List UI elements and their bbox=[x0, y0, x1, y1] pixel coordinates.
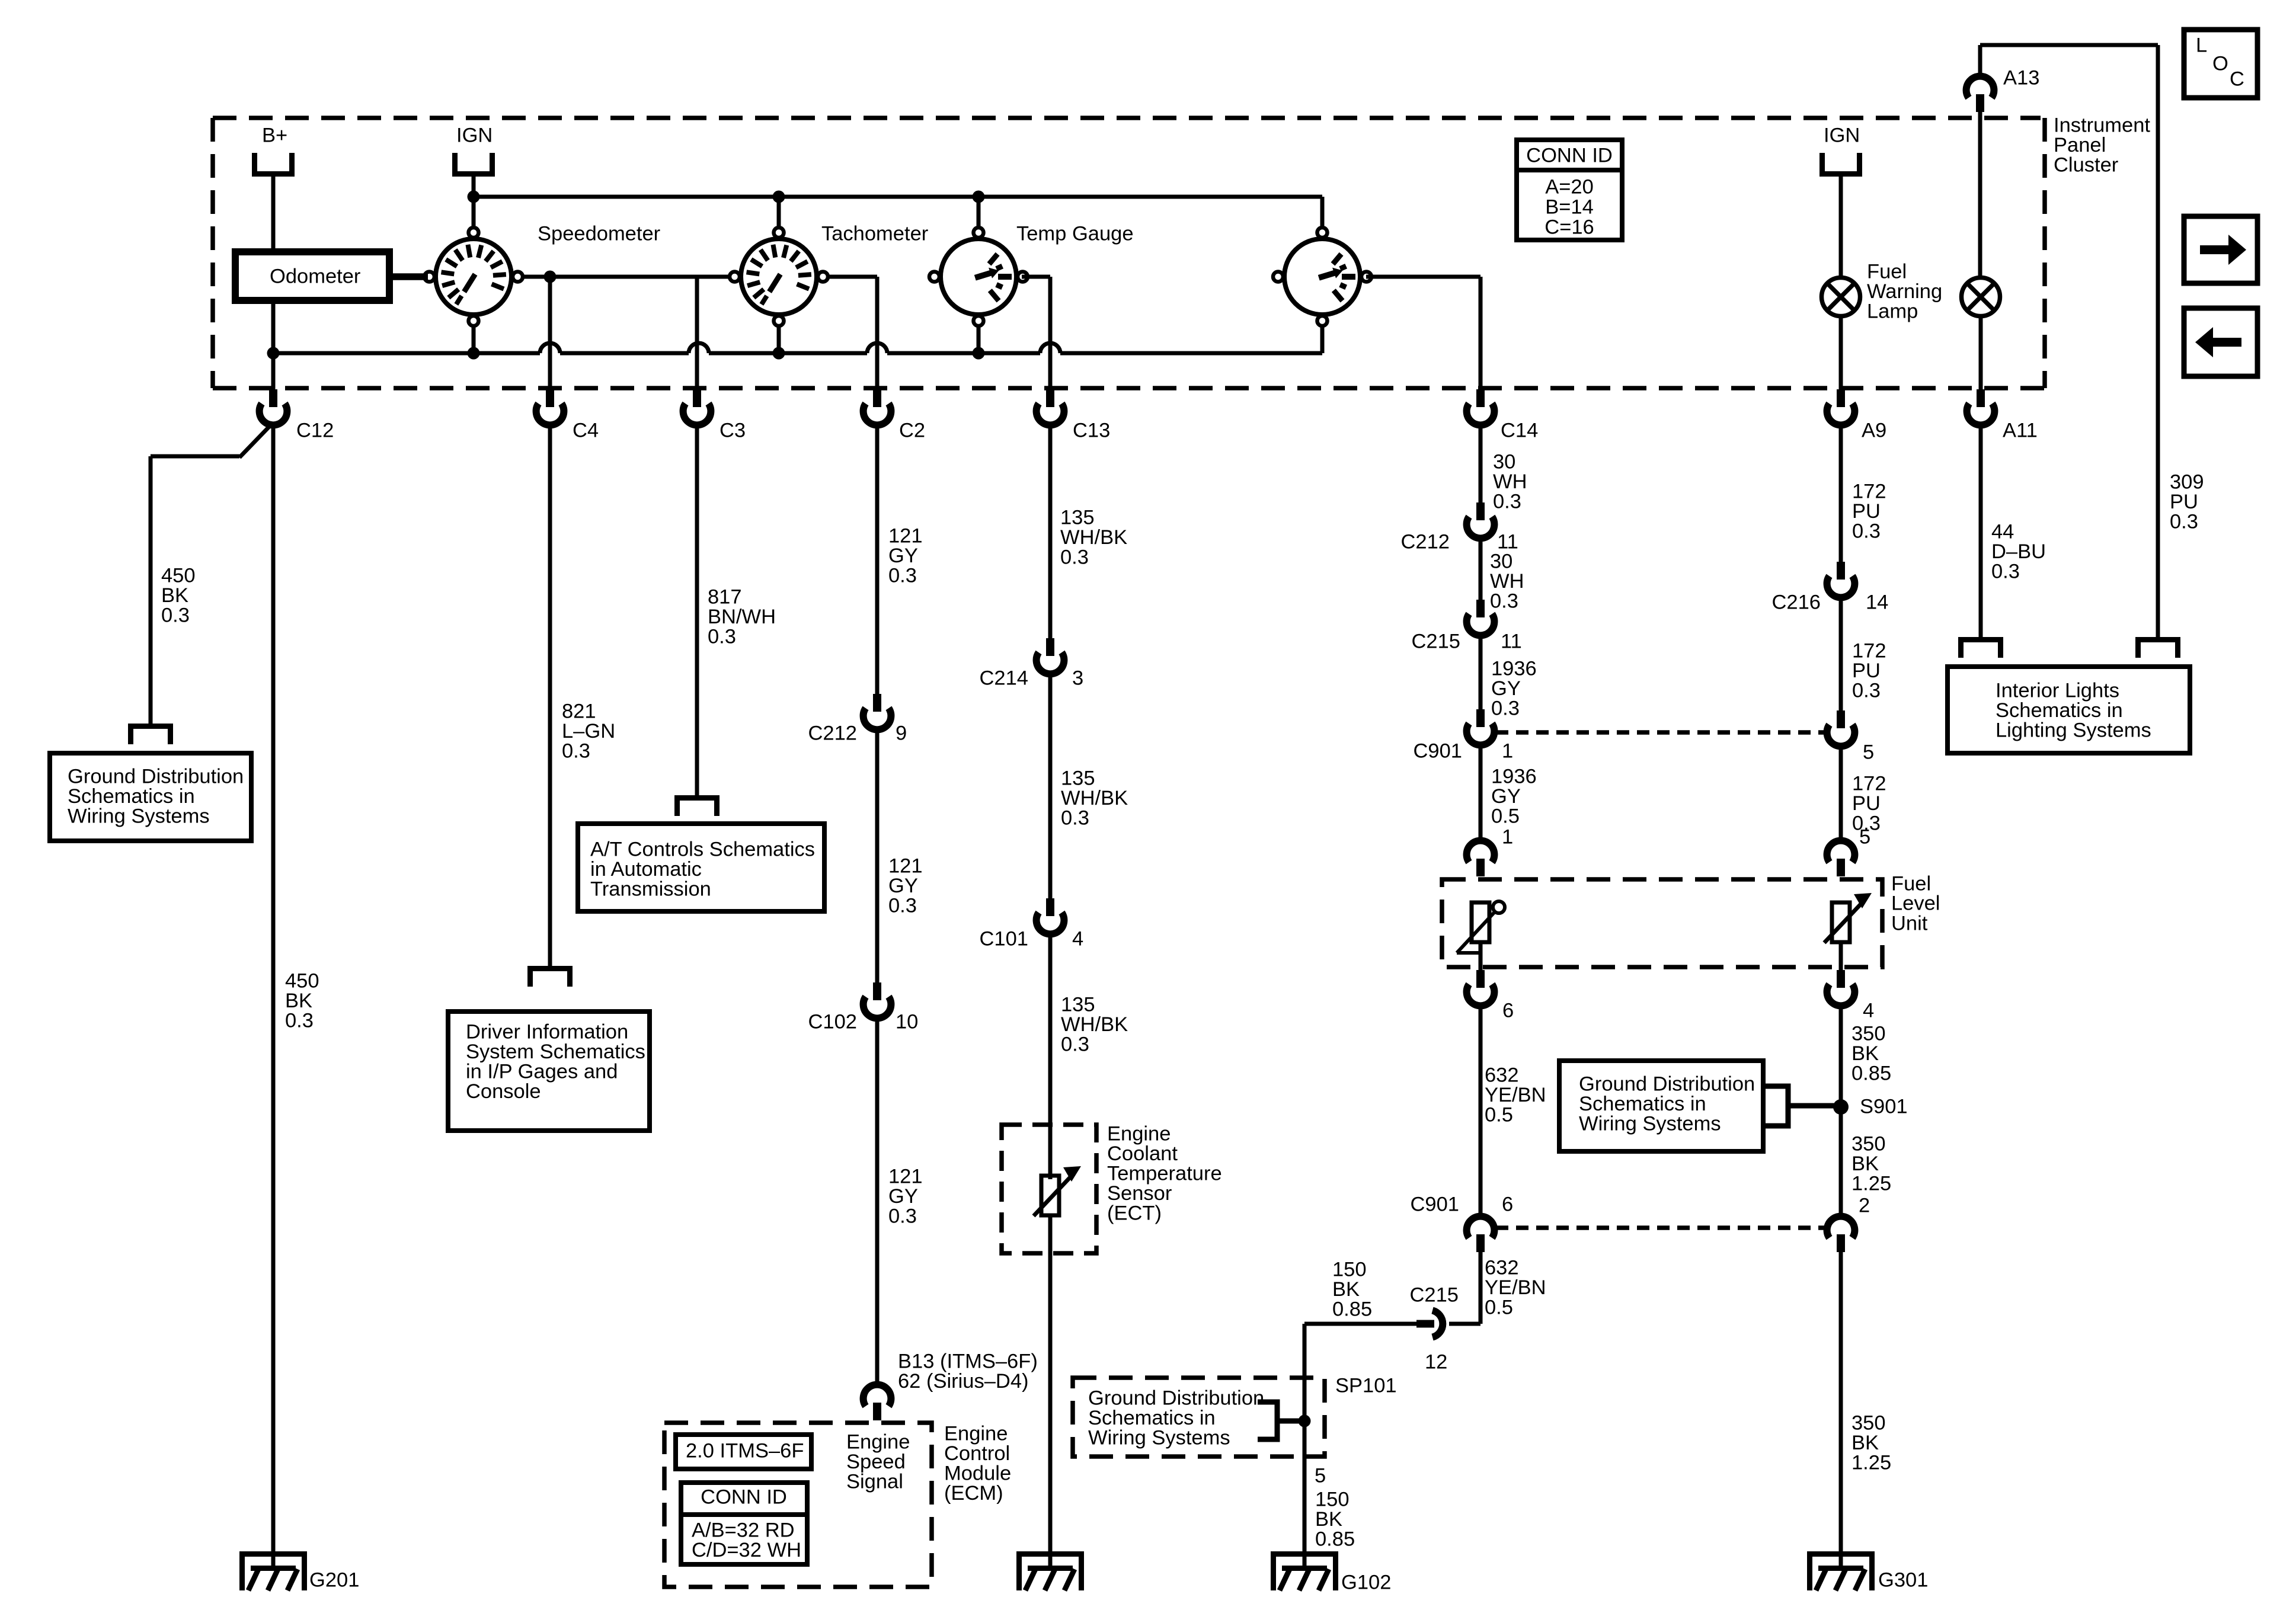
svg-text:A13: A13 bbox=[2003, 67, 2039, 89]
svg-text:GY: GY bbox=[888, 875, 918, 897]
svg-text:C14: C14 bbox=[1501, 420, 1538, 442]
svg-text:0.3: 0.3 bbox=[1060, 546, 1089, 569]
svg-text:YE/BN: YE/BN bbox=[1485, 1276, 1546, 1299]
svg-text:C13: C13 bbox=[1073, 420, 1110, 442]
svg-text:Lighting Systems: Lighting Systems bbox=[1996, 719, 2151, 742]
svg-text:A11: A11 bbox=[2003, 420, 2038, 442]
svg-text:0.3: 0.3 bbox=[285, 1010, 314, 1032]
svg-text:Cluster: Cluster bbox=[2054, 154, 2118, 177]
svg-text:(ECT): (ECT) bbox=[1107, 1202, 1162, 1225]
svg-text:632: 632 bbox=[1485, 1257, 1519, 1279]
svg-text:WH/BK: WH/BK bbox=[1060, 526, 1127, 549]
svg-text:BK: BK bbox=[1851, 1042, 1879, 1065]
svg-text:0.3: 0.3 bbox=[1991, 561, 2020, 583]
svg-text:172: 172 bbox=[1852, 481, 1886, 503]
svg-text:Wiring Systems: Wiring Systems bbox=[1088, 1427, 1230, 1449]
svg-text:0.5: 0.5 bbox=[1485, 1297, 1513, 1319]
svg-text:Wiring Systems: Wiring Systems bbox=[68, 805, 210, 828]
svg-text:C901: C901 bbox=[1414, 740, 1462, 763]
svg-text:0.3: 0.3 bbox=[708, 626, 736, 648]
svg-text:121: 121 bbox=[888, 525, 923, 548]
svg-text:Temp Gauge: Temp Gauge bbox=[1016, 223, 1134, 245]
svg-text:PU: PU bbox=[1852, 660, 1881, 682]
svg-text:Tachometer: Tachometer bbox=[821, 223, 928, 245]
svg-text:2.0 ITMS–6F: 2.0 ITMS–6F bbox=[686, 1440, 804, 1462]
svg-text:Unit: Unit bbox=[1891, 913, 1928, 935]
svg-text:PU: PU bbox=[2170, 491, 2198, 513]
svg-text:Level: Level bbox=[1891, 892, 1940, 915]
svg-text:WH/BK: WH/BK bbox=[1061, 787, 1128, 809]
svg-text:A9: A9 bbox=[1862, 420, 1886, 442]
svg-text:Control: Control bbox=[944, 1442, 1010, 1465]
svg-text:309: 309 bbox=[2170, 471, 2204, 494]
svg-text:C: C bbox=[2230, 68, 2244, 91]
svg-text:WH/BK: WH/BK bbox=[1061, 1013, 1128, 1036]
svg-text:Module: Module bbox=[944, 1462, 1011, 1485]
svg-text:C2: C2 bbox=[899, 420, 925, 442]
svg-text:1: 1 bbox=[1502, 740, 1513, 763]
svg-text:Ground Distribution: Ground Distribution bbox=[68, 766, 244, 788]
svg-text:0.3: 0.3 bbox=[1852, 520, 1881, 543]
svg-text:Engine: Engine bbox=[846, 1431, 910, 1454]
svg-text:821: 821 bbox=[562, 700, 596, 723]
svg-text:5: 5 bbox=[1863, 741, 1874, 764]
svg-text:150: 150 bbox=[1332, 1259, 1367, 1281]
svg-text:121: 121 bbox=[888, 1166, 923, 1188]
svg-text:C12: C12 bbox=[296, 420, 334, 442]
svg-text:350: 350 bbox=[1851, 1023, 1886, 1045]
svg-text:0.3: 0.3 bbox=[1493, 491, 1521, 513]
svg-text:6: 6 bbox=[1502, 1193, 1513, 1216]
svg-text:C4: C4 bbox=[573, 420, 599, 442]
svg-text:30: 30 bbox=[1493, 451, 1515, 473]
svg-text:BK: BK bbox=[161, 584, 188, 607]
svg-text:1936: 1936 bbox=[1491, 658, 1537, 680]
svg-text:C212: C212 bbox=[808, 722, 857, 745]
svg-text:C216: C216 bbox=[1772, 591, 1821, 614]
svg-text:BK: BK bbox=[1315, 1508, 1342, 1531]
svg-text:4: 4 bbox=[1863, 1000, 1874, 1022]
svg-text:BK: BK bbox=[1332, 1278, 1360, 1301]
svg-text:Lamp: Lamp bbox=[1867, 300, 1918, 323]
svg-text:3: 3 bbox=[1072, 667, 1083, 690]
svg-text:172: 172 bbox=[1852, 773, 1886, 795]
svg-text:1.25: 1.25 bbox=[1851, 1452, 1891, 1474]
svg-text:0.3: 0.3 bbox=[888, 565, 917, 587]
svg-text:Transmission: Transmission bbox=[590, 878, 711, 901]
svg-text:44: 44 bbox=[1991, 521, 2014, 543]
svg-text:C102: C102 bbox=[808, 1011, 857, 1033]
svg-text:BK: BK bbox=[1851, 1432, 1879, 1454]
svg-text:Ground Distribution: Ground Distribution bbox=[1088, 1387, 1264, 1410]
svg-text:Speedometer: Speedometer bbox=[538, 223, 660, 245]
svg-text:Instrument: Instrument bbox=[2054, 114, 2150, 137]
svg-text:30: 30 bbox=[1490, 550, 1512, 573]
svg-text:C901: C901 bbox=[1411, 1193, 1459, 1216]
svg-text:5: 5 bbox=[1859, 826, 1870, 849]
svg-text:632: 632 bbox=[1485, 1064, 1519, 1087]
svg-text:CONN ID: CONN ID bbox=[1526, 145, 1613, 167]
svg-text:A=20: A=20 bbox=[1545, 176, 1594, 199]
svg-text:0.3: 0.3 bbox=[1490, 590, 1518, 613]
svg-text:135: 135 bbox=[1061, 994, 1095, 1016]
svg-text:0.85: 0.85 bbox=[1315, 1528, 1355, 1551]
svg-text:1: 1 bbox=[1502, 826, 1513, 849]
svg-text:GY: GY bbox=[1491, 785, 1521, 808]
svg-text:0.3: 0.3 bbox=[161, 604, 190, 627]
svg-text:Driver Information: Driver Information bbox=[466, 1021, 628, 1044]
svg-text:14: 14 bbox=[1866, 591, 1888, 614]
svg-text:350: 350 bbox=[1851, 1133, 1886, 1156]
svg-text:O: O bbox=[2212, 53, 2228, 75]
svg-text:2: 2 bbox=[1859, 1195, 1870, 1217]
svg-text:GY: GY bbox=[888, 545, 918, 567]
svg-text:D–BU: D–BU bbox=[1991, 540, 2046, 563]
svg-text:Wiring Systems: Wiring Systems bbox=[1579, 1113, 1721, 1135]
svg-text:in Automatic: in Automatic bbox=[590, 858, 702, 881]
svg-text:Fuel: Fuel bbox=[1867, 261, 1907, 283]
svg-text:Coolant: Coolant bbox=[1107, 1142, 1178, 1165]
svg-text:Speed: Speed bbox=[846, 1451, 906, 1473]
svg-text:PU: PU bbox=[1852, 500, 1881, 523]
svg-text:Engine: Engine bbox=[1107, 1123, 1171, 1145]
svg-text:Warning: Warning bbox=[1867, 280, 1942, 303]
svg-text:L–GN: L–GN bbox=[562, 720, 615, 742]
svg-text:C215: C215 bbox=[1412, 630, 1460, 653]
svg-text:Signal: Signal bbox=[846, 1471, 903, 1493]
svg-text:10: 10 bbox=[896, 1011, 918, 1033]
svg-text:B13 (ITMS–6F): B13 (ITMS–6F) bbox=[898, 1350, 1038, 1373]
svg-text:C/D=32 WH: C/D=32 WH bbox=[692, 1539, 801, 1561]
svg-text:C214: C214 bbox=[980, 667, 1028, 690]
svg-text:(ECM): (ECM) bbox=[944, 1482, 1003, 1505]
svg-text:121: 121 bbox=[888, 855, 923, 878]
svg-text:BK: BK bbox=[285, 990, 312, 1012]
svg-text:450: 450 bbox=[161, 565, 196, 587]
svg-text:A/T Controls Schematics: A/T Controls Schematics bbox=[590, 838, 815, 861]
svg-text:G301: G301 bbox=[1878, 1569, 1928, 1592]
svg-text:0.3: 0.3 bbox=[1061, 1033, 1089, 1056]
svg-text:450: 450 bbox=[285, 970, 319, 993]
svg-text:C3: C3 bbox=[720, 420, 746, 442]
svg-text:172: 172 bbox=[1852, 640, 1886, 662]
svg-text:0.85: 0.85 bbox=[1851, 1062, 1891, 1085]
svg-text:BN/WH: BN/WH bbox=[708, 606, 776, 628]
svg-text:1936: 1936 bbox=[1491, 766, 1537, 788]
svg-text:0.3: 0.3 bbox=[888, 895, 917, 917]
svg-text:Sensor: Sensor bbox=[1107, 1182, 1172, 1205]
svg-text:62 (Sirius–D4): 62 (Sirius–D4) bbox=[898, 1370, 1029, 1393]
svg-text:0.85: 0.85 bbox=[1332, 1298, 1372, 1321]
svg-text:S901: S901 bbox=[1860, 1096, 1908, 1118]
svg-text:11: 11 bbox=[1501, 630, 1522, 653]
svg-text:WH: WH bbox=[1490, 570, 1524, 593]
svg-text:Panel: Panel bbox=[2054, 134, 2106, 156]
svg-text:0.3: 0.3 bbox=[2170, 511, 2198, 533]
svg-text:6: 6 bbox=[1502, 1000, 1514, 1022]
svg-text:0.3: 0.3 bbox=[562, 740, 590, 763]
svg-text:C215: C215 bbox=[1410, 1284, 1459, 1307]
svg-text:YE/BN: YE/BN bbox=[1485, 1084, 1546, 1106]
svg-text:IGN: IGN bbox=[456, 124, 493, 147]
svg-text:G201: G201 bbox=[309, 1569, 359, 1592]
svg-text:Engine: Engine bbox=[944, 1423, 1008, 1445]
svg-text:0.3: 0.3 bbox=[1852, 680, 1881, 702]
svg-text:Schematics in: Schematics in bbox=[1996, 699, 2123, 722]
svg-text:5: 5 bbox=[1315, 1465, 1326, 1487]
svg-text:Odometer: Odometer bbox=[270, 265, 360, 288]
svg-text:WH: WH bbox=[1493, 470, 1527, 493]
svg-text:Schematics in: Schematics in bbox=[68, 785, 195, 808]
svg-text:4: 4 bbox=[1072, 928, 1083, 950]
svg-text:C=16: C=16 bbox=[1544, 216, 1594, 239]
svg-text:IGN: IGN bbox=[1824, 124, 1860, 147]
svg-text:B=14: B=14 bbox=[1545, 196, 1594, 219]
svg-text:C101: C101 bbox=[980, 928, 1028, 950]
svg-text:L: L bbox=[2196, 34, 2207, 57]
svg-text:350: 350 bbox=[1851, 1412, 1886, 1435]
svg-text:0.3: 0.3 bbox=[1491, 697, 1520, 720]
svg-text:Console: Console bbox=[466, 1080, 541, 1103]
svg-text:Ground Distribution: Ground Distribution bbox=[1579, 1073, 1755, 1096]
svg-text:9: 9 bbox=[896, 722, 907, 745]
svg-text:CONN ID: CONN ID bbox=[701, 1486, 787, 1509]
svg-text:GY: GY bbox=[888, 1185, 918, 1208]
svg-text:BK: BK bbox=[1851, 1153, 1879, 1175]
svg-text:817: 817 bbox=[708, 586, 742, 609]
svg-text:0.5: 0.5 bbox=[1485, 1104, 1513, 1126]
svg-text:1.25: 1.25 bbox=[1851, 1173, 1891, 1195]
svg-text:PU: PU bbox=[1852, 792, 1881, 815]
svg-text:A/B=32 RD: A/B=32 RD bbox=[692, 1519, 795, 1542]
svg-text:12: 12 bbox=[1425, 1351, 1447, 1374]
svg-text:Interior Lights: Interior Lights bbox=[1996, 680, 2119, 702]
svg-text:Schematics in: Schematics in bbox=[1088, 1407, 1216, 1429]
svg-text:135: 135 bbox=[1061, 767, 1095, 790]
svg-text:0.3: 0.3 bbox=[1061, 807, 1089, 830]
svg-text:G102: G102 bbox=[1341, 1571, 1391, 1594]
svg-text:SP101: SP101 bbox=[1335, 1375, 1397, 1397]
svg-text:System Schematics: System Schematics bbox=[466, 1041, 645, 1063]
svg-text:B+: B+ bbox=[262, 124, 287, 147]
svg-text:GY: GY bbox=[1491, 677, 1521, 700]
svg-text:150: 150 bbox=[1315, 1489, 1350, 1511]
svg-text:Schematics in: Schematics in bbox=[1579, 1093, 1706, 1115]
svg-text:in I/P Gages and: in I/P Gages and bbox=[466, 1061, 618, 1083]
svg-text:135: 135 bbox=[1060, 507, 1095, 529]
svg-text:0.5: 0.5 bbox=[1491, 805, 1520, 828]
svg-text:C212: C212 bbox=[1401, 531, 1450, 553]
svg-text:Temperature: Temperature bbox=[1107, 1163, 1222, 1185]
svg-text:0.3: 0.3 bbox=[888, 1205, 917, 1228]
